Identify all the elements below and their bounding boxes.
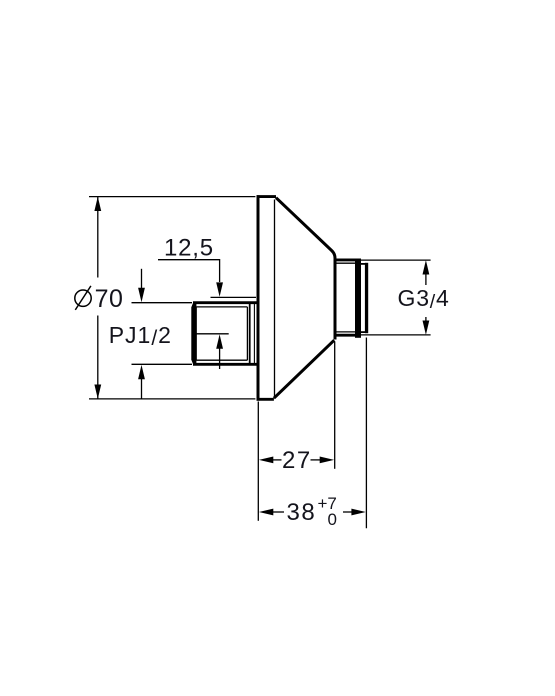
svg-text:12,5: 12,5 (164, 235, 214, 262)
cone body outline (274, 198, 335, 399)
svg-text:G3/4: G3/4 (398, 285, 450, 313)
svg-text:0: 0 (328, 510, 337, 529)
dim 38 dimension line and arrows (259, 509, 273, 516)
G3/4 end collar (361, 263, 368, 333)
svg-text:38: 38 (287, 499, 317, 526)
dim PJ1/2 extension lines (132, 302, 193, 304)
G3/4 thread outline (335, 260, 358, 335)
PJ1/2 nipple outline (191, 302, 256, 365)
dim 12,5 arrows (216, 282, 223, 296)
dim 12,5 leader shelf (158, 260, 220, 282)
dim Ø70 label diameter symbol (75, 290, 91, 306)
wall flange outline (257, 195, 276, 400)
PJ1/2 axis line (196, 333, 229, 335)
dim Ø70 extension lines (89, 196, 255, 198)
svg-text:PJ1/2: PJ1/2 (109, 322, 172, 350)
dim PJ1/2 arrows (141, 269, 143, 289)
G3/4 thread end face (355, 259, 361, 338)
dim Ø70 dimension line (97, 197, 99, 399)
G3/4 axis line extended left of flange (211, 296, 257, 298)
svg-text:27: 27 (282, 447, 312, 474)
dim G3/4 arrows (423, 260, 430, 274)
dim G3/4 extension lines (358, 259, 431, 261)
dim 38 extension lines (257, 402, 259, 521)
dim 27 dimension line and arrows (259, 457, 273, 464)
svg-text:70: 70 (95, 285, 124, 313)
dim 27 extension line (cone end) (334, 342, 336, 469)
